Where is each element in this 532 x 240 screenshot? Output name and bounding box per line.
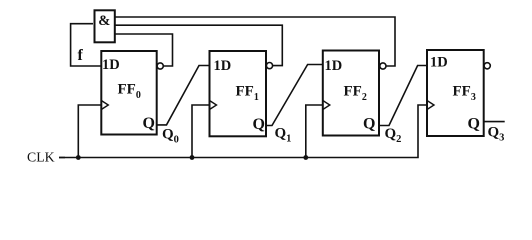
svg-text:1D: 1D <box>430 55 448 71</box>
svg-text:1D: 1D <box>325 58 343 74</box>
svg-text:1D: 1D <box>214 58 232 74</box>
svg-text:Q: Q <box>143 115 155 132</box>
svg-text:Q: Q <box>253 116 265 133</box>
svg-text:Q: Q <box>468 116 480 133</box>
svg-text:f: f <box>78 47 84 64</box>
svg-text:&: & <box>98 13 110 29</box>
svg-text:Q: Q <box>363 116 375 133</box>
svg-text:CLK: CLK <box>27 150 55 165</box>
svg-text:1D: 1D <box>102 57 120 73</box>
